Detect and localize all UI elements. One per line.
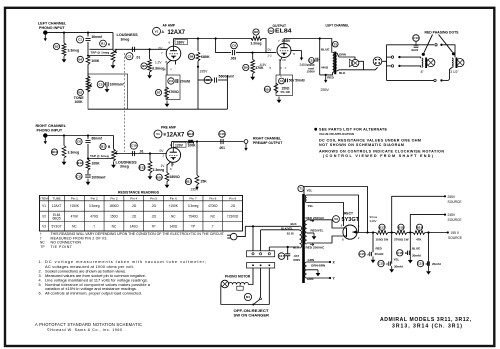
node 245V tap [409,231,411,233]
svg-text:NOT SHOWN ON SCHEMATIC DIAGRAM: NOT SHOWN ON SCHEMATIC DIAGRAM [319,143,404,147]
svg-text:195V: 195V [191,187,200,191]
svg-text:BLUE: BLUE [321,47,329,51]
svg-text:TUBE: TUBE [52,196,60,200]
svg-text:Y: Y [170,68,172,72]
wire wiper to grid B [115,153,167,155]
svg-text:BLUE: BLUE [412,247,420,251]
wire C1 to tap [87,42,89,54]
svg-text:V1: V1 [155,29,159,33]
svg-text:B1: B1 [101,145,105,149]
svg-text:†150K: †150K [169,204,179,208]
svg-text:AF AMP: AF AMP [163,24,176,28]
wire pot B top [113,136,115,150]
capacitor C17 .047 [278,253,300,262]
svg-text:C1: C1 [78,38,82,42]
wire interlock drop b [260,230,262,251]
wire wiper to grid [115,48,167,50]
ground below C5 [105,86,110,93]
node tap-C1 [87,54,89,56]
wire pot top [112,33,114,51]
svg-text:PREAMP OUTPUT: PREAMP OUTPUT [253,141,283,145]
wire jack stub upper [387,56,392,58]
footnote measured [40,236,108,240]
resistor B16 3300ohm [156,173,180,182]
node grid-B5 [149,48,151,50]
wire primary tap [261,229,300,231]
wire interlock right down [268,268,270,305]
resistor B13 3.3meg [139,161,164,173]
wire tap upper [88,55,111,57]
svg-text:235V: 235V [282,39,291,43]
wire B6 top [197,39,199,52]
ground below C15C [389,266,394,273]
table footnote dagger [40,232,225,236]
svg-text:B9: B9 [244,66,248,70]
svg-text:C9: C9 [232,44,236,48]
svg-text:B14: B14 [188,132,194,136]
wire C17 top [287,247,289,254]
svg-text:VALUE OR APPLICATION: VALUE OR APPLICATION [319,132,354,136]
svg-text:GRN: GRN [308,258,315,262]
wire B5 stub [149,49,151,59]
ground below B16 [165,182,170,189]
svg-text:B1: B1 [101,42,105,46]
node interlock a [252,225,254,227]
capacitor C10 .01 [130,142,143,156]
svg-text:ITEM: ITEM [40,196,48,200]
V1B pin labels [160,142,187,171]
svg-text:C15: C15 [359,252,365,256]
svg-text:C10: C10 [131,144,137,148]
wire input R [47,135,113,137]
svg-text:PHONO INPUT: PHONO INPUT [37,129,63,133]
BLUE lead label [412,247,420,251]
wire B15 drop [196,142,198,176]
node 255V tap [391,231,393,233]
node C17 [287,246,289,248]
ground below C11 [86,179,91,186]
svg-text:680K: 680K [201,55,210,59]
BLK-YEL tap label [281,226,294,235]
footnote NC [40,241,81,245]
wire B4 to tone [87,65,89,77]
BLK primary top label [291,222,298,226]
node 195V source [447,231,449,233]
svg-text:B19: B19 [417,225,423,229]
wire B12 to C11 [87,170,89,174]
node 195V-B6 [197,66,199,68]
node C15A [372,231,374,233]
resistor B9 470K [243,60,264,74]
svg-text:180V: 180V [177,41,186,45]
wire top line cont [443,45,455,57]
switch M1 designator [244,293,251,300]
svg-text:V2: V2 [269,29,273,33]
svg-text:100K: 100K [188,143,197,147]
resistor B10 150ohm [264,83,278,93]
wire riser 195V [226,75,228,109]
capacitor C8 5600mmf [204,74,234,83]
svg-text:RESISTANCE READINGS: RESISTANCE READINGS [118,190,159,194]
svg-text:©Howard W. Sams & Co., Inc. 19: ©Howard W. Sams & Co., Inc. 1960 [47,328,122,332]
B10 value [281,86,291,94]
svg-text:GRN: GRN [307,277,314,281]
svg-text:140Ω: 140Ω [169,225,177,229]
node X [329,261,331,263]
node C15D [427,231,429,233]
svg-text:C15: C15 [418,262,424,266]
node preamp-B15 [196,140,198,142]
svg-text:A PHOTOFACT STANDARD NOTATION: A PHOTOFACT STANDARD NOTATION SCHEMATIC [35,322,142,327]
line cord plug [227,233,237,240]
wire B11 top [63,136,65,146]
svg-text:4700Ω: 4700Ω [169,90,180,94]
svg-text:NC: NC [112,225,117,229]
tube V3 rectifier [343,225,357,239]
svg-text:V3: V3 [42,225,46,229]
svg-text:†: † [40,232,42,236]
svg-text:Pin 7: Pin 7 [190,196,197,200]
svg-text:150Ω: 150Ω [110,215,118,219]
resistor B6 680K [188,52,210,61]
svg-text:YEL: YEL [307,189,313,193]
potentiometer B2 tone 100K [86,76,92,92]
svg-text:OUTPUT: OUTPUT [273,24,287,28]
wire C1 drop [87,33,89,37]
RED 250VAC lower [306,244,326,250]
svg-text:255V: 255V [448,195,457,199]
Y terminal label [307,277,336,282]
ground below C15D [426,268,431,275]
90ma label [370,215,378,223]
jack terminals return [434,79,443,81]
svg-text:EL84: EL84 [275,29,293,35]
svg-text:5.: 5. [39,283,42,287]
wire wiper left segment [89,48,113,50]
svg-text:LEFT CHANNEL: LEFT CHANNEL [326,24,350,28]
node B+ main [366,231,368,233]
interlock box cord [247,263,275,268]
svg-text:30mfd: 30mfd [375,252,384,256]
svg-text:V2: V2 [42,215,46,219]
svg-text:Pin 2: Pin 2 [91,196,98,200]
svg-text:120V: 120V [175,143,184,147]
tube V1B title [154,130,185,138]
svg-text:4mfd: 4mfd [411,48,418,52]
wire C18 drop [319,39,321,75]
loudness label upper [117,33,139,42]
speaker SP1 left [349,59,359,67]
left channel phono input label [38,22,67,31]
svg-text:1.: 1. [39,260,42,264]
svg-text:RECT: RECT [344,212,353,216]
svg-text:30mfd: 30mfd [412,253,421,257]
capacitor C5 1000mmf [97,81,124,88]
GRN-BRN center tap [307,264,325,277]
svg-text:3.3meg: 3.3meg [153,168,165,172]
svg-text:TP: TP [41,245,45,249]
svg-text:C19: C19 [413,36,419,40]
capacitor C16 .001 [219,131,226,150]
svg-text:LEFT CHANNEL: LEFT CHANNEL [38,22,67,26]
wire jack stub lower [387,65,392,67]
OUTPUT label [273,24,287,28]
svg-text:Pin 1: Pin 1 [71,196,78,200]
node 245V source [444,214,446,216]
motor winding [229,283,249,291]
wire 245V rail [410,215,445,233]
svg-text:Pin 5: Pin 5 [150,196,157,200]
wire plug riser [382,45,387,62]
gang dashed line [124,53,126,152]
phasing dot pointer left [422,35,433,56]
svg-text:†2300Ω: †2300Ω [227,215,239,219]
RECT label [344,212,353,216]
T1 heater winding GRN [305,262,307,278]
wire bottom run [221,304,269,306]
resistor B4 100K [77,56,100,65]
svg-text:3R13, 3R14 (Ch. 3R1): 3R13, 3R14 (Ch. 3R1) [392,324,462,330]
ground below C15B [408,257,413,264]
svg-text:TAP @ 1meg: TAP @ 1meg [91,50,110,54]
transformer 3.5in winding [452,58,457,69]
wire fil top [307,195,359,232]
wire interlock drop c [268,247,270,251]
svg-text:.001: .001 [219,146,225,150]
svg-text:470K: 470K [71,215,79,219]
svg-text:25K: 25K [201,180,208,184]
svg-text:100K: 100K [91,59,100,63]
svg-text:30mfd: 30mfd [394,264,403,268]
wire V2 cathode [280,57,282,75]
svg-text:4700Ω: 4700Ω [208,204,218,208]
svg-text:Y: Y [285,66,287,70]
svg-text:240V: 240V [370,219,377,223]
T1 filament winding 5Y3 [305,195,306,203]
wire 195V out [425,232,448,234]
ground below pot B [111,162,116,169]
svg-text:1800Ω: 1800Ω [109,204,119,208]
svg-text:B2: B2 [78,91,82,95]
svg-text:195V: 195V [200,70,209,74]
8 inch label [421,70,424,74]
svg-text:3.3meg: 3.3meg [68,151,80,155]
right phono input jack [43,134,47,145]
wire plate line to pad [194,141,244,143]
parts list note [314,128,387,137]
svg-text:X: X [170,167,172,171]
svg-text:5Y3GT: 5Y3GT [52,225,62,229]
wire tap lower [88,158,112,160]
svg-text:LOUDNESS: LOUDNESS [117,33,139,37]
svg-text:B12: B12 [77,161,83,165]
dc coil note [319,139,421,148]
wire C15D drop [428,233,430,269]
wire primary bottom [269,246,299,248]
resistor B3 3.3meg [53,43,79,56]
svg-text:50V 50mfd: 50V 50mfd [289,79,305,83]
svg-text:.2Ω: .2Ω [131,204,137,208]
jack terminals lower [391,65,400,67]
svg-text:C4: C4 [280,79,284,83]
svg-text:T1: T1 [299,187,303,191]
wire bottom return2 [443,79,449,81]
capacitor C15C 30mfd [378,260,403,268]
svg-text:SOURCE: SOURCE [448,200,463,204]
wire motor left [220,284,222,305]
V3 pin labels [341,224,360,242]
svg-text:PRE AMP: PRE AMP [161,126,177,130]
wire plate1 [307,220,344,228]
node 255V source [444,195,446,197]
capacitor C15A 30mfd [359,251,384,257]
node L input-B3 [63,31,65,33]
svg-text:A: A [367,252,369,256]
control B1-A designator [100,40,111,47]
tone network box [88,74,128,109]
control B1-B designator [100,143,111,149]
wire V2 plate up [283,39,285,44]
svg-text:470Ω: 470Ω [90,215,98,219]
interlock box chassis [247,251,275,257]
wire V1B heater stub [171,162,173,166]
svg-text:100K: 100K [92,162,101,166]
svg-text:TIE POINT: TIE POINT [51,245,73,249]
wire C6 to tap [87,144,89,158]
wire V1B cathode [167,162,171,173]
control B2 designator [77,89,83,95]
wire B9 top [252,53,254,60]
arrow 255V source [321,75,330,92]
svg-text:(CONTROL VIEWED FROM SHAFT END: (CONTROL VIEWED FROM SHAFT END) [323,154,434,158]
wire fil bottom [307,203,344,227]
plug P1 4-pin [373,57,382,66]
speaker SP3 3.5in [456,59,464,67]
tone label [74,96,85,104]
red phasing dots label [425,31,460,35]
ground below V2 cathode [277,97,282,104]
svg-text:C: C [386,262,388,266]
svg-text:5600mmf: 5600mmf [219,74,235,78]
svg-text:SEE PARTS LIST FOR ALTERNATE: SEE PARTS LIST FOR ALTERNATE [319,128,388,132]
speaker SP2 8in [427,59,435,67]
wire B18-B19 [407,232,413,234]
195V source label [448,231,463,240]
svg-text:B13: B13 [139,166,145,170]
wire B13 top [149,154,151,162]
wire OPT red lead [320,72,333,75]
svg-text:.2Ω: .2Ω [151,215,157,219]
wire V1B plate line [172,141,188,143]
svg-text:3meg: 3meg [121,38,130,42]
svg-text:C18: C18 [309,59,315,63]
ground below B13 [148,173,153,180]
wire interlock drop a [252,226,254,251]
svg-text:.01: .01 [136,55,141,59]
numbered notes block [39,259,206,296]
T1 core [302,194,305,283]
phasing dot pointer right [439,35,456,56]
svg-text:V1: V1 [42,204,46,208]
svg-text:NC: NC [72,225,77,229]
wire 8in bottom [401,66,421,67]
LEFT CHANNEL label [326,24,350,28]
svg-text:THIS READING WILL VARY DEPENDI: THIS READING WILL VARY DEPENDING UPON TH… [51,232,225,236]
wire heater X [307,261,330,263]
svg-text:RIGHT CHANNEL: RIGHT CHANNEL [36,124,67,128]
node Y [329,277,331,279]
node gridB-B13 [149,152,151,154]
svg-text:255V: 255V [321,88,330,92]
svg-text:V1: V1 [156,132,160,136]
svg-text:C8: C8 [206,78,210,82]
wire V3 output [357,232,376,234]
svg-text:12AX7: 12AX7 [52,204,62,208]
transformer T1 designator [298,185,313,192]
svg-text:36mmf: 36mmf [92,35,103,39]
node plate-B6 [197,37,199,39]
wire plug riser low [386,61,388,80]
right channel preamp output label [253,136,283,145]
svg-text:Pin 3: Pin 3 [110,196,117,200]
svg-text:1.2V: 1.2V [155,61,162,65]
resistor B7 4700ohm [155,87,179,99]
svg-text:ADMIRAL MODELS 3R11, 3R12,: ADMIRAL MODELS 3R11, 3R12, [380,317,472,323]
YEL lead label [394,258,400,262]
svg-text:6BQ5: 6BQ5 [53,216,61,220]
svg-text:Pin 8: Pin 8 [209,196,216,200]
svg-text:3.3meg: 3.3meg [68,49,80,53]
svg-text:Pin 6: Pin 6 [170,196,177,200]
motor M2 [221,280,229,288]
capacitor C4 50mfd [279,74,305,84]
capacitor C11 1000mmf [76,173,106,179]
svg-text:B1 50: B1 50 [287,231,294,235]
node plate-C18 [319,37,321,39]
resistor B12 100K [77,160,100,171]
node L input-C1 [87,31,89,33]
V2 screen 245V [291,51,308,68]
svg-text:4.: 4. [39,278,42,282]
svg-text:†: † [93,225,95,229]
node RED 255V [325,74,327,76]
svg-text:5% 1W: 5% 1W [281,90,291,94]
capacitor C15B 30mfd [397,250,421,258]
svg-text:OFF-ON-REJECT: OFF-ON-REJECT [234,309,270,313]
wire interlock mid down [260,268,262,298]
phono motor label [225,275,251,279]
svg-text:.003: .003 [230,57,236,61]
wire B6 bottom rail [197,61,199,109]
resistor B8 3.3meg [251,29,263,46]
wire B17-B18 [388,232,395,234]
svg-text:C15: C15 [397,251,403,255]
svg-text:6.: 6. [39,292,42,296]
tube V3 title [333,216,360,223]
wire plate2 [307,236,344,243]
svg-text:195 V: 195 V [451,231,460,235]
wire speaker to plug [363,67,377,70]
svg-text:SOURCE: SOURCE [448,218,463,222]
wire 255V rail [392,196,445,232]
svg-text:3.3meg: 3.3meg [152,67,164,71]
wire V1A cathode [167,60,171,75]
BLK primary bottom label [293,246,300,250]
255V source label [448,195,463,204]
svg-text:T2: T2 [334,42,338,46]
capacitor C9 .003 [230,42,237,60]
svg-text:1800Ω: 1800Ω [170,175,181,179]
